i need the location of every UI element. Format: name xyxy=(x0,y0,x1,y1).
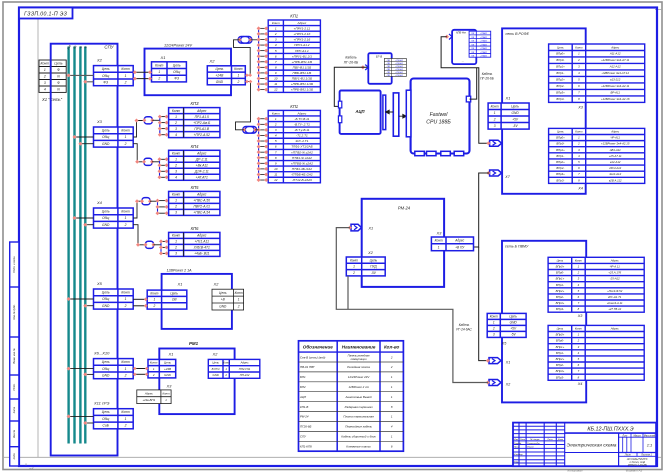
svg-text:-ПТ12-В-2А2б: -ПТ12-В-2А2б xyxy=(292,178,312,182)
svg-text:Переходные кабель: Переходные кабель xyxy=(345,425,372,429)
svg-text:Конт: Конт xyxy=(272,111,280,115)
block СПУ xyxy=(51,44,118,456)
svg-text:ВПр3+: ВПр3+ xyxy=(556,91,565,95)
svg-text:Х2: Х2 xyxy=(96,57,103,62)
svg-text:Конт: Конт xyxy=(150,291,158,295)
node module A input xyxy=(361,65,365,69)
svg-text:КПЗ: КПЗ xyxy=(191,101,200,106)
svg-text:Клеммные платы: Клеммные платы xyxy=(346,444,371,448)
svg-text:ВПр1+: ВПр1+ xyxy=(556,148,565,152)
svg-text:2: 2 xyxy=(124,424,127,428)
svg-text:(08532) 2-28-(В): (08532) 2-28-(В) xyxy=(628,463,647,467)
svg-text:ПРУ1-А1.2: ПРУ1-А1.2 xyxy=(294,43,310,47)
svg-text:Х1: Х1 xyxy=(168,352,174,356)
connector X2 xyxy=(94,66,134,86)
svg-text:Цепь: Цепь xyxy=(164,361,172,365)
svg-text:ВПр2-: ВПр2- xyxy=(556,295,564,299)
terminal board КП3 xyxy=(169,108,220,138)
svg-text:+ПР2-Аж.Б: +ПР2-Аж.Б xyxy=(193,121,211,125)
svg-text:Лист: Лист xyxy=(624,454,631,457)
block АЦП xyxy=(340,91,381,134)
svg-text:в13-212: в13-212 xyxy=(610,78,621,82)
svg-text:-Т1.2.Т1: -Т1.2.Т1 xyxy=(296,134,308,138)
svg-text:2: 2 xyxy=(577,58,580,62)
svg-text:ВПр1+: ВПр1+ xyxy=(556,277,565,281)
svg-text:КП1-В: КП1-В xyxy=(300,405,308,409)
node pair БП2 xyxy=(144,297,148,301)
svg-text:1: 1 xyxy=(353,265,355,269)
pair symbol КП5 xyxy=(142,198,150,205)
svg-text:Х4: Х4 xyxy=(577,186,583,190)
svg-text:ВПр2-: ВПр2- xyxy=(556,166,564,170)
svg-text:2: 2 xyxy=(174,121,177,125)
wire X4 row1 to КП5 symbol xyxy=(133,201,142,218)
svg-text:GND: GND xyxy=(213,373,219,377)
svg-text:1: 1 xyxy=(125,135,127,139)
svg-text:Общ: Общ xyxy=(102,367,109,371)
pin table ПВМУ Х4 xyxy=(548,325,644,380)
svg-text:КП1: КП1 xyxy=(290,13,298,18)
wire bus tap xyxy=(69,415,94,417)
svg-text:Х2: Х2 xyxy=(209,59,216,64)
svg-text:Лист: Лист xyxy=(519,439,525,441)
svg-text:2: 2 xyxy=(352,271,355,275)
svg-text:Х11 сРЭ: Х11 сРЭ xyxy=(93,401,110,406)
wire БП1-Х2 row2 to symbol B xyxy=(236,82,251,130)
pair symbol КП1 lower xyxy=(243,127,257,134)
svg-text:1: 1 xyxy=(125,297,127,301)
svg-text:Х1 “Сеть”: Х1 “Сеть” xyxy=(41,97,63,102)
connector ПВМУ Х5 xyxy=(487,313,526,337)
svg-text:ПВ: ПВ xyxy=(471,37,475,39)
svg-text:+5V: +5V xyxy=(512,117,519,121)
pair symbol КП3 xyxy=(144,117,152,124)
svg-text:ПУД: ПУД xyxy=(370,265,377,269)
svg-text:2Рс-Н1.Т1: 2Рс-Н1.Т1 xyxy=(607,295,622,299)
svg-text:GND: GND xyxy=(216,80,224,84)
svg-text:-5V: -5V xyxy=(371,271,377,275)
svg-text:Конт: Конт xyxy=(121,210,130,214)
svg-text:Лит: Лит xyxy=(621,434,627,437)
svg-text:12: 12 xyxy=(274,88,278,92)
svg-text:Конт: Конт xyxy=(491,104,499,108)
svg-text:4: 4 xyxy=(275,134,277,138)
svg-text:Конт: Конт xyxy=(234,67,243,71)
svg-text:ПГ26-6Б: ПГ26-6Б xyxy=(300,425,311,429)
collector bus КП1 upper xyxy=(258,28,260,89)
svg-text:ВПр3-: ВПр3- xyxy=(556,307,564,311)
svg-text:Х1: Х1 xyxy=(177,282,183,286)
connector БП1 Х1 xyxy=(152,62,187,82)
svg-text:7: 7 xyxy=(275,60,277,64)
svg-text:5: 5 xyxy=(275,139,277,143)
svg-text:...: ... xyxy=(462,59,465,63)
block РМ-24 xyxy=(362,199,444,287)
node pair БП1 xyxy=(133,70,137,74)
connector X5 xyxy=(94,289,134,309)
svg-text:3: 3 xyxy=(494,124,496,128)
svg-text:ПВ: ПВ xyxy=(471,48,475,50)
svg-text:ПВ: ПВ xyxy=(471,33,475,35)
connector arrow ПВМУ Х1 xyxy=(486,358,501,364)
svg-text:+24в-ВП1: +24в-ВП1 xyxy=(143,398,156,402)
svg-text:Цепь: Цепь xyxy=(170,291,178,295)
svg-text:-В.ТУ-.2.Т1: -В.ТУ-.2.Т1 xyxy=(294,122,310,126)
svg-text:12/24Power 24V: 12/24Power 24V xyxy=(348,375,370,379)
svg-text:ПП2-П11: ПП2-П11 xyxy=(239,367,251,371)
svg-text:Конт: Конт xyxy=(435,239,443,243)
svg-text:+Пс1.А11: +Пс1.А11 xyxy=(195,240,209,244)
svg-text:Адрес: Адрес xyxy=(144,391,153,395)
svg-text:+25.А.17б: +25.А.17б xyxy=(608,271,621,275)
svg-text:Общ: Общ xyxy=(173,70,180,74)
svg-text:СПУ: СПУ xyxy=(104,45,114,50)
svg-text:ВПр0-: ВПр0- xyxy=(556,142,564,146)
svg-text:ВПр1+: ВПр1+ xyxy=(556,65,565,69)
wire bus tap xyxy=(85,224,93,226)
svg-text:1: 1 xyxy=(154,298,156,302)
svg-text:2: 2 xyxy=(577,142,580,146)
node pair РМ1 xyxy=(133,367,137,371)
svg-text:ВПр3-: ВПр3- xyxy=(556,375,564,379)
svg-text:Адрес: Адрес xyxy=(454,239,464,243)
svg-text:+27.ТВ.12: +27.ТВ.12 xyxy=(608,307,621,311)
terminal board КП6 xyxy=(169,232,220,256)
svg-text:-ПВ: -ПВ xyxy=(386,60,390,62)
svg-text:2: 2 xyxy=(224,373,227,377)
svg-text:РМ-24: РМ-24 xyxy=(398,206,411,211)
svg-text:-ПВ: -ПВ xyxy=(386,63,390,65)
svg-text:сеть В РОФЕ: сеть В РОФЕ xyxy=(506,32,530,36)
svg-text:4: 4 xyxy=(175,133,177,137)
svg-text:КПВ Чел: КПВ Чел xyxy=(456,31,466,34)
connector РМ1 Х1 xyxy=(148,359,176,378)
svg-text:Цепь: Цепь xyxy=(219,291,227,295)
svg-text:GND: GND xyxy=(102,304,110,308)
svg-text:-25-А12: -25-А12 xyxy=(610,277,620,281)
svg-text:ДР-2.11: ДР-2.11 xyxy=(195,157,208,161)
svg-text:Конт: Конт xyxy=(155,63,164,67)
svg-text:11: 11 xyxy=(274,82,277,86)
svg-text:+Пос4-Ф.52: +Пос4-Ф.52 xyxy=(607,289,623,293)
connector X6-X10 xyxy=(94,359,134,379)
svg-text:+ПВА1: +ПВА1 xyxy=(480,40,488,43)
svg-text:Х3: Х3 xyxy=(436,231,443,235)
svg-text:12ВPower 2 1А: 12ВPower 2 1А xyxy=(349,385,369,389)
svg-text:+ПВА1: +ПВА1 xyxy=(480,32,488,35)
svg-text:+4аБ-.В11: +4аБ-.В11 xyxy=(194,252,210,256)
svg-text:КП4: КП4 xyxy=(191,144,200,149)
svg-text:+12ВPower Эк4-А2.1б: +12ВPower Эк4-А2.1б xyxy=(601,97,630,101)
svg-text:Х1: Х1 xyxy=(505,361,510,365)
svg-text:2: 2 xyxy=(274,32,277,36)
svg-text:Х1: Х1 xyxy=(505,97,511,101)
svg-text:ВПр3+: ВПр3+ xyxy=(556,369,565,373)
svg-text:+ПВС-А.50: +ПВС-А.50 xyxy=(193,199,210,203)
svg-text:ВПр0-: ВПр0- xyxy=(556,271,564,275)
svg-text:Х1: Х1 xyxy=(368,227,374,231)
svg-text:Цепь: Цепь xyxy=(215,67,223,71)
svg-text:Х5: Х5 xyxy=(96,281,103,286)
svg-text:Х4: Х4 xyxy=(96,200,103,205)
svg-text:ПП-212: ПП-212 xyxy=(240,373,250,377)
title block xyxy=(513,423,656,467)
svg-text:ВПр3+: ВПр3+ xyxy=(556,301,565,305)
svg-text:10: 10 xyxy=(274,77,278,81)
svg-text:ФЗ: ФЗ xyxy=(174,77,179,81)
svg-text:2: 2 xyxy=(43,74,46,78)
svg-text:ПВ: ПВ xyxy=(471,41,475,43)
wire X2 to БП1-Х1 pair xyxy=(133,71,151,73)
svg-text:Инв.№ дубл.: Инв.№ дубл. xyxy=(12,304,16,320)
connector РМ-24 Х3 xyxy=(431,237,473,251)
svg-text:Цепь: Цепь xyxy=(370,258,378,262)
svg-text:GND: GND xyxy=(102,142,110,146)
svg-text:дата: дата xyxy=(12,406,16,413)
connector РМ-24 Х1 arrow xyxy=(348,224,362,231)
svg-text:4: 4 xyxy=(175,175,177,179)
svg-text:Адрес: Адрес xyxy=(196,151,207,155)
svg-text:6: 6 xyxy=(275,145,277,149)
svg-text:GND: GND xyxy=(102,374,110,378)
svg-text:9: 9 xyxy=(275,161,277,165)
svg-text:Радарная терминал: Радарная терминал xyxy=(345,405,373,409)
svg-text:СиБ: СиБ xyxy=(103,424,110,428)
svg-text:ПТФ1-Ж.с2А2: ПТФ1-Ж.с2А2 xyxy=(292,156,312,160)
svg-text:1:1: 1:1 xyxy=(647,443,653,448)
svg-text:Цепь: Цепь xyxy=(557,129,564,133)
wire bus tap xyxy=(80,143,93,145)
svg-text:Конт: Конт xyxy=(350,258,358,262)
svg-text:Сев-В (сеть) (анд): Сев-В (сеть) (анд) xyxy=(300,355,325,359)
svg-text:Цепь: Цепь xyxy=(54,61,62,65)
svg-text:ПВБ-Ф51.1/Б: ПВБ-Ф51.1/Б xyxy=(293,71,312,75)
svg-text:+ПВ-А1: +ПВ-А1 xyxy=(395,71,404,74)
svg-text:Адрес: Адрес xyxy=(610,45,619,49)
connector РМ1 Х2 xyxy=(208,359,259,378)
svg-text:Адрес: Адрес xyxy=(240,361,249,365)
block Fastwel CPU 188Б xyxy=(411,79,470,154)
svg-text:Конт: Конт xyxy=(172,234,181,238)
svg-text:1: 1 xyxy=(275,26,277,30)
svg-text:Конт: Конт xyxy=(162,391,170,395)
pin table ПВМУ Х3 xyxy=(548,257,644,312)
connector X4 xyxy=(94,208,134,228)
terminal board КП1 lower xyxy=(268,110,320,182)
connector arrow РОФЕ Х6 xyxy=(486,140,501,146)
connector РОФЕ Х1 xyxy=(488,103,529,129)
svg-text:Х2: Х2 xyxy=(213,282,220,286)
svg-text:ПГ-26-6Б: ПГ-26-6Б xyxy=(480,77,494,81)
svg-text:4к12-А12: 4к12-А12 xyxy=(609,172,621,176)
svg-text:4: 4 xyxy=(275,43,277,47)
svg-text:Х5: Х5 xyxy=(501,342,508,346)
svg-text:Разраб.: Разраб. xyxy=(514,443,522,445)
svg-text:Масса: Масса xyxy=(633,434,641,437)
svg-text:1: 1 xyxy=(175,157,177,161)
svg-text:2: 2 xyxy=(577,339,580,343)
svg-text:Конт: Конт xyxy=(121,360,130,364)
svg-text:Пров.: Пров. xyxy=(514,447,520,449)
svg-text:Х1: Х1 xyxy=(160,55,166,60)
svg-text:ВПр2-: ВПр2- xyxy=(556,363,564,367)
svg-text:+ПВА1: +ПВА1 xyxy=(480,47,488,50)
svg-text:+ПРБ-Ф51.1/1Б: +ПРБ-Ф51.1/1Б xyxy=(291,88,313,92)
Fastwel right tab xyxy=(466,96,470,102)
svg-text:Конт: Конт xyxy=(575,326,583,330)
svg-text:+ПТФ2-Ж.с2А2: +ПТФ2-Ж.с2А2 xyxy=(291,150,313,154)
svg-text:2: 2 xyxy=(236,80,239,84)
svg-text:Адрес: Адрес xyxy=(297,21,307,25)
svg-text:Адрес: Адрес xyxy=(610,258,619,262)
svg-text:БП1: БП1 xyxy=(300,375,306,379)
svg-text:-В.Т.у-В.11: -В.Т.у-В.11 xyxy=(294,128,309,132)
svg-text:3: 3 xyxy=(493,333,495,337)
wire X4 row2 to КП6 symbol xyxy=(133,225,145,245)
svg-text:Конт: Конт xyxy=(121,410,130,414)
svg-text:подл.: подл. xyxy=(12,452,16,459)
svg-text:Х2: Х2 xyxy=(505,382,510,386)
module КПВ xyxy=(452,30,476,64)
svg-text:Конт: Конт xyxy=(172,151,181,155)
svg-text:ПВР2-А.01: ПВР2-А.01 xyxy=(193,205,210,209)
svg-text:Ф: Ф xyxy=(57,68,60,72)
svg-text:Цепь: Цепь xyxy=(102,410,110,414)
wire bus tap xyxy=(85,373,93,375)
svg-text:-ПВ: -ПВ xyxy=(386,69,390,71)
svg-text:+ПВА1: +ПВА1 xyxy=(480,51,488,54)
pair symbol КП1 upper xyxy=(238,37,252,44)
svg-text:2: 2 xyxy=(157,77,160,81)
svg-text:Кабель: Кабель xyxy=(482,72,493,76)
svg-text:Х3: Х3 xyxy=(166,384,173,388)
svg-text:+АТ.АТ1: +АТ.АТ1 xyxy=(196,175,208,179)
svg-text:1: 1 xyxy=(175,199,177,203)
wire X6 to РМ1 pair xyxy=(133,368,148,370)
svg-text:А12-А12: А12-А12 xyxy=(609,65,621,69)
svg-text:Конт: Конт xyxy=(223,361,231,365)
bus arrows xyxy=(386,110,394,114)
svg-text:Цепь: Цепь xyxy=(102,360,110,364)
svg-text:ПВ: ПВ xyxy=(471,52,475,54)
svg-text:ВПр2+: ВПр2+ xyxy=(556,160,565,164)
svg-text:+ПВ-А1: +ПВ-А1 xyxy=(395,74,404,77)
svg-text:Общ: Общ xyxy=(102,297,109,301)
svg-text:ВПр1-: ВПр1- xyxy=(556,351,564,355)
svg-text:В ПУ1: В ПУ1 xyxy=(212,367,220,371)
svg-text:3: 3 xyxy=(275,128,277,132)
svg-text:Конт: Конт xyxy=(172,109,181,113)
svg-text:Д1Ф-2.11: Д1Ф-2.11 xyxy=(194,169,209,173)
wire X1 to X2 row1 xyxy=(66,74,93,76)
svg-text:Цепь: Цепь xyxy=(102,291,110,295)
svg-text:-ПТФБ-4Б./2А2: -ПТФБ-4Б./2А2 xyxy=(291,173,313,177)
svg-text:CPU 188Б: CPU 188Б xyxy=(426,120,451,126)
wire РМ-24 Х2 stub xyxy=(347,276,349,309)
terminal board КП5 xyxy=(169,191,220,215)
svg-text:2: 2 xyxy=(390,365,393,369)
Fastwel bottom tabs xyxy=(415,151,425,155)
svg-text:GND: GND xyxy=(512,111,520,115)
svg-text:Конт: Конт xyxy=(490,315,498,319)
svg-text:ВПр0+: ВПр0+ xyxy=(556,264,565,268)
block сеть Б ПВМУ xyxy=(502,241,586,403)
svg-text:Дата: Дата xyxy=(557,439,564,441)
svg-text:Взам. инв.№: Взам. инв.№ xyxy=(12,348,16,364)
svg-text:Х3: Х3 xyxy=(577,314,584,318)
wire X5 to БП2 pair xyxy=(133,298,147,300)
svg-text:Конт: Конт xyxy=(41,61,50,65)
svg-text:№ докум.: № докум. xyxy=(530,438,540,441)
svg-text:Адрес: Адрес xyxy=(196,234,207,238)
svg-text:3: 3 xyxy=(175,169,177,173)
svg-text:РМ-24: РМ-24 xyxy=(300,415,309,419)
svg-text:ВПр3-: ВПр3- xyxy=(556,178,564,182)
svg-text:2Рс4-212: 2Рс4-212 xyxy=(608,166,621,170)
svg-text:2: 2 xyxy=(124,81,127,85)
АЦП right bar xyxy=(383,95,386,130)
svg-text:РГ-24-6АС: РГ-24-6АС xyxy=(456,328,472,332)
svg-text:Кабель: Кабель xyxy=(345,56,356,60)
svg-text:ВР-А11: ВР-А11 xyxy=(610,91,620,95)
wire bus tap xyxy=(69,298,94,300)
wire bus tap xyxy=(85,305,93,307)
svg-text:Адрес: Адрес xyxy=(610,326,619,330)
svg-text:ВПр2+: ВПр2+ xyxy=(556,78,565,82)
svg-text:Электрическая схема: Электрическая схема xyxy=(567,443,617,449)
svg-text:+В ПУ: +В ПУ xyxy=(455,245,465,249)
connector X3 xyxy=(94,127,134,147)
svg-text:КБ.12-ПШ.ПХХХ.Э: КБ.12-ПШ.ПХХХ.Э xyxy=(587,426,634,432)
block БП1 12/24Power 24V xyxy=(145,49,232,96)
svg-text:+24В: +24В xyxy=(216,73,225,77)
svg-text:ВПр1-: ВПр1- xyxy=(556,283,564,287)
svg-text:+ПВС-А.54: +ПВС-А.54 xyxy=(193,211,210,215)
wire branch to Fastwel tab xyxy=(470,68,477,99)
svg-text:ПВУ1-Ф1.1/1Б: ПВУ1-Ф1.1/1Б xyxy=(292,77,312,81)
svg-text:+25-А7.11: +25-А7.11 xyxy=(609,154,622,158)
svg-text:8: 8 xyxy=(275,65,277,69)
wire РМ-24 Х1 to ПВМУ Х2 xyxy=(336,228,488,383)
svg-text:+ПВА1: +ПВА1 xyxy=(480,54,488,57)
svg-text:Копировал: Копировал xyxy=(568,468,583,472)
svg-text:Конт: Конт xyxy=(575,129,583,133)
svg-text:АВ1-А11: АВ1-А11 xyxy=(609,148,621,152)
svg-text:Кабель сборочный и блок: Кабель сборочный и блок xyxy=(341,435,376,439)
svg-text:Адрес: Адрес xyxy=(196,193,207,197)
svg-text:Подп.: Подп. xyxy=(12,383,16,390)
svg-text:ПР5-А1.В: ПР5-А1.В xyxy=(194,127,209,131)
svg-text:Подп. и дата: Подп. и дата xyxy=(12,256,16,273)
svg-text:12ВPower 2 1А: 12ВPower 2 1А xyxy=(167,268,193,272)
svg-text:Конт: Конт xyxy=(121,291,130,295)
svg-text:Х2: Х2 xyxy=(367,251,374,255)
svg-text:4: 4 xyxy=(44,87,46,91)
svg-text:Плата терминальная: Плата терминальная xyxy=(343,415,374,419)
svg-text:ПВУ-Ф1.1/1Б: ПВУ-Ф1.1/1Б xyxy=(293,65,312,69)
svg-text:ПВ: ПВ xyxy=(471,44,475,46)
svg-text:2: 2 xyxy=(153,304,156,308)
svg-text:+ПТФБ-Ж.с2А2: +ПТФБ-Ж.с2А2 xyxy=(291,161,313,165)
svg-text:1: 1 xyxy=(125,216,127,220)
svg-text:1: 1 xyxy=(125,417,127,421)
svg-text:ЧР-А11: ЧР-А11 xyxy=(610,136,620,140)
svg-text:1: 1 xyxy=(175,240,177,244)
svg-text:ВПр0-: ВПр0- xyxy=(556,58,564,62)
wire symbol B to bus xyxy=(255,129,258,131)
collector bus КП1 lower xyxy=(258,119,260,180)
svg-text:Цепь: Цепь xyxy=(557,45,564,49)
